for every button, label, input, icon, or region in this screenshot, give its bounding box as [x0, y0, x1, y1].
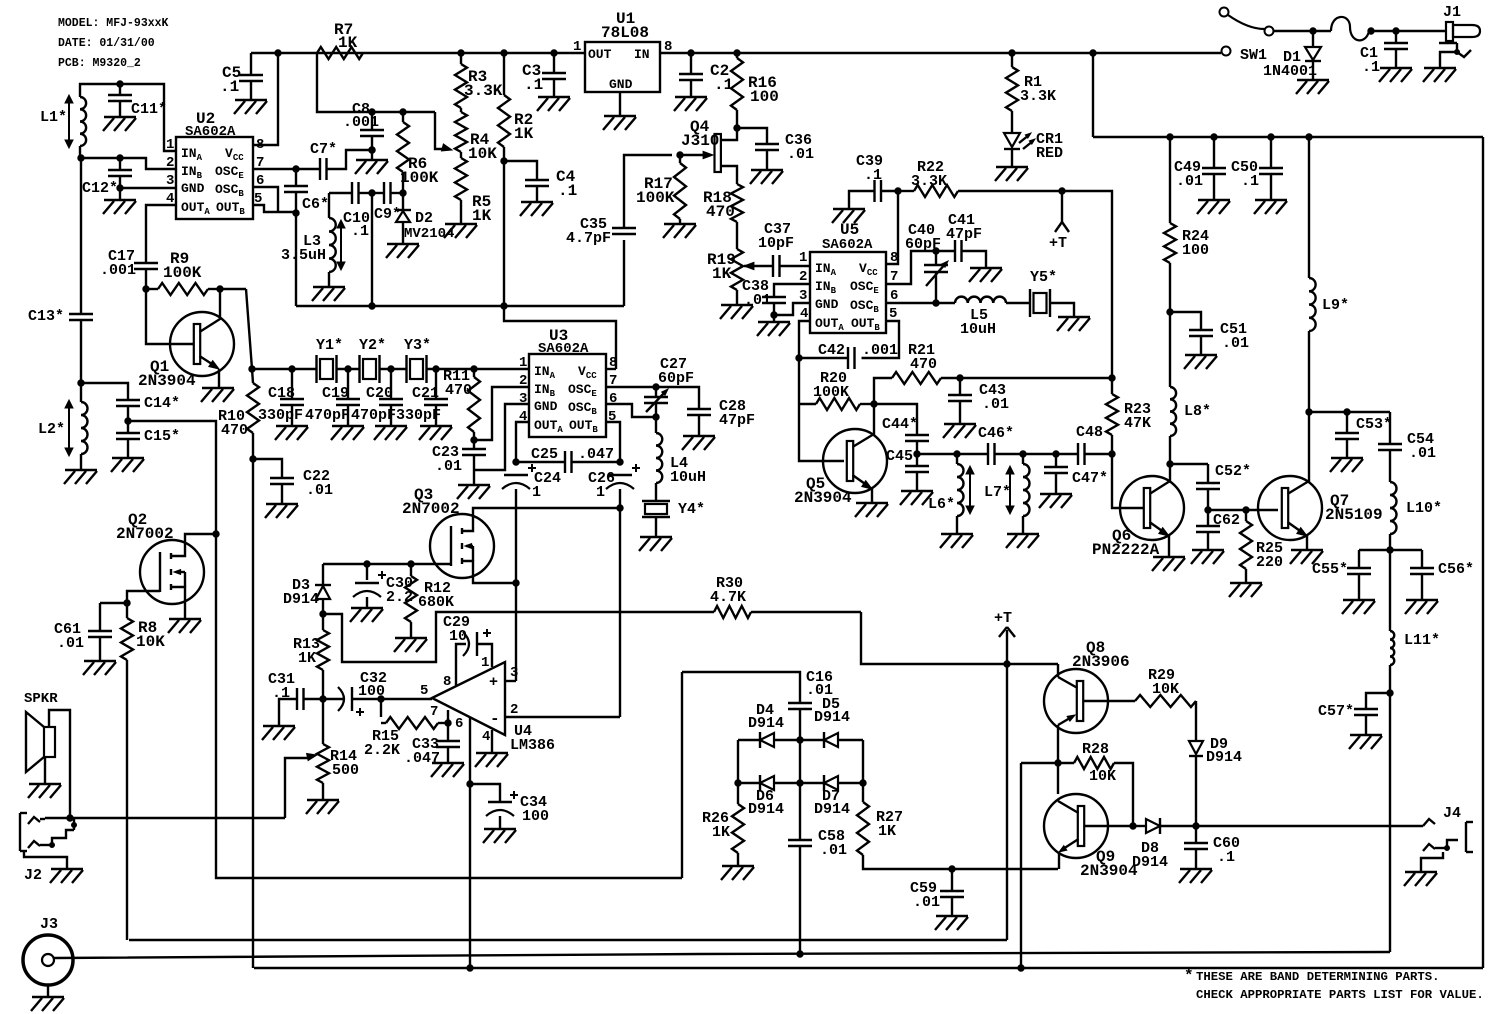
capacitor C39 — [873, 180, 875, 202]
crystal Y3 — [405, 355, 407, 383]
svg-text:GND: GND — [181, 181, 205, 196]
node D8-D9-C60 — [1193, 823, 1199, 829]
node D1 tap — [1310, 28, 1316, 34]
svg-text:LM386: LM386 — [510, 737, 555, 754]
ground C38 — [773, 315, 775, 322]
resistor R23 — [1106, 394, 1118, 435]
transistor Q8 2N3906 — [1044, 669, 1108, 733]
svg-text:.01: .01 — [820, 842, 847, 859]
ground C18 — [276, 425, 308, 427]
svg-text:C21: C21 — [412, 385, 439, 402]
node IF joints — [954, 451, 960, 457]
node filter joints — [289, 366, 295, 372]
svg-text:PN2222A: PN2222A — [1092, 541, 1160, 559]
capacitor C51 — [1170, 312, 1201, 330]
wire R14 wiper — [285, 758, 310, 818]
fuse F1 — [1331, 17, 1369, 40]
capacitor C6 — [295, 169, 297, 186]
capacitor C21 — [435, 369, 437, 399]
svg-text:2N3906: 2N3906 — [1072, 653, 1130, 671]
svg-text:+T: +T — [1049, 235, 1067, 252]
node C42 left — [796, 355, 802, 361]
svg-text:470pF: 470pF — [305, 407, 350, 424]
svg-text:2N3904: 2N3904 — [138, 372, 196, 390]
svg-text:C20: C20 — [366, 385, 393, 402]
svg-text:Y1*: Y1* — [316, 337, 343, 354]
svg-text:R28: R28 — [1082, 741, 1109, 758]
svg-text:D2: D2 — [415, 210, 433, 227]
svg-text:1: 1 — [519, 355, 527, 371]
resistor R3 — [460, 53, 462, 64]
capacitor C4 — [504, 161, 537, 180]
wire R30 net — [323, 612, 714, 662]
svg-text:C55*: C55* — [1312, 561, 1348, 578]
node LPF mid — [1387, 547, 1393, 553]
svg-text:SA602A: SA602A — [538, 341, 589, 357]
ground C36 — [751, 169, 783, 171]
svg-text:10K: 10K — [1152, 681, 1179, 698]
resistor R8 — [126, 603, 128, 618]
capacitor C44 — [905, 434, 929, 436]
svg-text:.1: .1 — [272, 685, 290, 702]
node C8 top — [369, 109, 375, 115]
ground C51 — [1185, 354, 1217, 356]
svg-text:1K: 1K — [514, 125, 534, 143]
wire supply drop — [1092, 53, 1094, 137]
node R25 tap — [1243, 507, 1249, 513]
IC U2 SA602A — [176, 137, 253, 219]
svg-text:+T: +T — [994, 610, 1012, 627]
wire U4 pin7 stub — [447, 710, 449, 723]
node R20 right — [871, 401, 877, 407]
wire U3 pin7 — [606, 386, 656, 388]
ground C53 — [1331, 457, 1363, 459]
node +T tap top — [1059, 188, 1065, 194]
wire +T rail — [861, 612, 1058, 664]
svg-text:C42: C42 — [818, 342, 845, 359]
resistor R7 — [317, 47, 363, 59]
node C40 bottom join — [933, 300, 939, 306]
ground C43 — [944, 423, 976, 425]
svg-text:CHECK APPROPRIATE PARTS LIST F: CHECK APPROPRIATE PARTS LIST FOR VALUE. — [1196, 988, 1484, 1002]
wire pin6 jog — [606, 404, 656, 417]
node L8 bottom — [1167, 461, 1173, 467]
capacitor C48 — [1077, 443, 1079, 465]
ground C45 — [901, 490, 933, 492]
varactor D2 MV2104 — [402, 193, 404, 210]
resistor R11 — [468, 377, 480, 432]
svg-text:C12*: C12* — [82, 180, 118, 197]
node L2 top — [78, 380, 84, 386]
svg-text:100K: 100K — [813, 384, 849, 401]
resistor R10 — [252, 369, 253, 383]
wire antenna branch — [80, 158, 82, 314]
node C43 tap — [957, 375, 963, 381]
arrow L7 variable — [1009, 470, 1011, 510]
svg-text:THESE ARE BAND DETERMINING PAR: THESE ARE BAND DETERMINING PARTS. — [1196, 970, 1440, 984]
svg-text:10uH: 10uH — [670, 469, 706, 486]
node Q2 drain tap — [213, 531, 219, 537]
svg-text:.01: .01 — [306, 482, 333, 499]
wire osc column — [295, 213, 297, 306]
wire U4 pin6 line — [469, 717, 471, 968]
capacitor C58 — [799, 783, 801, 840]
node Q2 gate — [124, 600, 130, 606]
wire SW1 to D1 — [1274, 30, 1332, 32]
wire R8 to bus — [126, 660, 128, 940]
resistor R2 — [503, 53, 505, 95]
wire R7 to C8/R6 — [317, 53, 435, 112]
svg-text:C44*: C44* — [882, 416, 918, 433]
wire Y5 ground — [1050, 303, 1074, 317]
capacitor C11 — [119, 84, 121, 95]
svg-text:.1: .1 — [1217, 849, 1235, 866]
node C1 tap — [1368, 28, 1374, 34]
wire Q7 base line — [1208, 509, 1278, 511]
svg-text:SA602A: SA602A — [185, 124, 236, 140]
crystal Y5 — [1029, 289, 1031, 317]
regulator U1 78L08 — [585, 42, 660, 92]
ground CR1 — [996, 166, 1028, 168]
capacitor C60 — [1195, 826, 1197, 843]
wire limiter top — [682, 672, 800, 703]
svg-text:C48: C48 — [1076, 424, 1103, 441]
svg-text:3.3K: 3.3K — [1020, 88, 1056, 105]
capacitor C45 — [916, 454, 918, 466]
svg-text:.01: .01 — [1176, 173, 1203, 190]
svg-text:10uH: 10uH — [960, 321, 996, 338]
capacitor C55 — [1358, 550, 1360, 568]
wire U3 pin2 jog — [474, 387, 529, 440]
svg-text:.1: .1 — [524, 76, 543, 94]
ground Y5 — [1058, 316, 1090, 318]
svg-text:10: 10 — [449, 628, 467, 645]
svg-text:.01: .01 — [787, 146, 814, 163]
svg-text:2.2: 2.2 — [386, 589, 413, 606]
capacitor C54 — [1389, 412, 1391, 444]
svg-text:D914: D914 — [814, 709, 850, 726]
connector J1 sleeve — [1439, 42, 1457, 44]
svg-text:100K: 100K — [400, 169, 439, 187]
svg-text:3: 3 — [519, 391, 527, 407]
capacitor C37 — [772, 255, 774, 277]
ground C59 — [936, 915, 968, 917]
wire U5 pin4 col — [799, 321, 844, 461]
svg-text:L6*: L6* — [928, 496, 955, 513]
ground C12 — [119, 188, 121, 200]
svg-text:10K: 10K — [136, 633, 165, 651]
svg-text:1K: 1K — [338, 34, 358, 52]
wire fuse to J1 — [1369, 30, 1446, 32]
svg-text:100: 100 — [750, 88, 779, 106]
node Q3 drain join — [617, 505, 623, 511]
capacitor C5 — [250, 53, 252, 75]
svg-text:.1: .1 — [864, 167, 882, 184]
resistor R1 — [1011, 53, 1013, 67]
svg-text:6: 6 — [256, 173, 264, 189]
capacitor C62 — [1207, 510, 1209, 526]
capacitor C46 — [987, 443, 989, 465]
ground C34 — [484, 828, 516, 830]
wire C14 feed — [81, 383, 128, 400]
svg-text:680K: 680K — [418, 594, 454, 611]
wire Q1 base — [146, 289, 193, 344]
wire R28 left drop — [1020, 763, 1022, 968]
capacitor C23 — [473, 440, 475, 449]
ground C5 — [235, 99, 267, 101]
node C11 tap — [117, 81, 123, 87]
svg-text:C13*: C13* — [28, 308, 64, 325]
svg-text:-: - — [490, 710, 500, 728]
crystal Y4 — [642, 500, 670, 502]
svg-text:1: 1 — [596, 484, 605, 501]
wire R21 left — [874, 378, 892, 404]
wire U4 pin3 — [505, 680, 516, 682]
svg-text:SPKR: SPKR — [24, 691, 58, 707]
resistor R24 — [1169, 137, 1171, 223]
wire x682 vertical — [681, 672, 683, 878]
wire U5 pin2 — [774, 284, 810, 297]
capacitor C33 — [447, 723, 449, 741]
arrow L3 variable — [340, 224, 342, 266]
capacitor C20 — [390, 369, 392, 399]
capacitor C10 — [329, 192, 352, 194]
svg-text:47K: 47K — [1124, 415, 1151, 432]
svg-text:L10*: L10* — [1406, 500, 1442, 517]
node C53 tap — [1344, 409, 1350, 415]
node Q7 collector — [1306, 409, 1312, 415]
svg-text:.1: .1 — [220, 78, 239, 96]
svg-text:D914: D914 — [1132, 854, 1168, 871]
wire C61 link — [100, 602, 127, 604]
svg-text:GND: GND — [609, 77, 633, 92]
svg-text:2: 2 — [510, 702, 518, 718]
wire mid bus — [129, 939, 1007, 941]
node C7-C6 — [293, 166, 299, 172]
crystal Y1 — [315, 355, 317, 383]
node C48 right — [1109, 451, 1115, 457]
svg-text:.047: .047 — [404, 750, 440, 767]
node C59 tap — [949, 866, 955, 872]
LED CR1 RED — [1004, 133, 1020, 147]
wire C44 feed — [874, 404, 917, 435]
svg-text:3: 3 — [166, 173, 174, 189]
ground C20 — [375, 425, 407, 427]
ground L6 — [941, 533, 973, 535]
node C27 bottom — [653, 414, 659, 420]
wire C52 feed — [1170, 463, 1208, 465]
svg-text:.1: .1 — [351, 223, 369, 240]
inductor L9 — [1308, 137, 1310, 278]
svg-text:L9*: L9* — [1322, 297, 1349, 314]
ground J1 — [1424, 67, 1456, 69]
svg-text:+: + — [489, 674, 498, 691]
ground C60 — [1180, 868, 1212, 870]
ground C39 — [833, 208, 865, 210]
capacitor C1 — [1395, 31, 1397, 43]
ground R26 — [722, 865, 754, 867]
resistor R5 — [460, 152, 462, 158]
node C8 bottom — [369, 147, 375, 153]
wire filter segs — [252, 368, 316, 370]
svg-text:470: 470 — [706, 203, 735, 221]
ground C11 — [104, 116, 136, 118]
ground R25 — [1230, 582, 1262, 584]
node C51 tap — [1167, 309, 1173, 315]
wire 6V line — [296, 305, 624, 307]
ground U1 GND pin — [619, 92, 621, 116]
IC U3 SA602A — [529, 354, 606, 437]
svg-text:MV2104: MV2104 — [404, 226, 454, 242]
ground C56 — [1406, 599, 1438, 601]
svg-text:J4: J4 — [1443, 805, 1461, 822]
svg-text:.01: .01 — [982, 396, 1009, 413]
svg-text:D914: D914 — [1206, 749, 1242, 766]
symbol +T flag — [1061, 191, 1063, 222]
ground R5 — [445, 223, 477, 225]
svg-text:4: 4 — [800, 306, 808, 322]
wire long left bus — [252, 459, 254, 968]
svg-text:C62: C62 — [1213, 512, 1240, 529]
wire AGC line — [128, 421, 682, 878]
svg-text:470: 470 — [910, 356, 937, 373]
resistor R6 — [402, 112, 404, 122]
ground R12 — [395, 637, 427, 639]
wire box bottom — [254, 967, 1483, 969]
svg-text:2N7002: 2N7002 — [402, 500, 460, 518]
ground C61 — [84, 660, 116, 662]
svg-text:C7*: C7* — [310, 141, 337, 158]
wire IF line — [917, 453, 988, 455]
ground C33 — [432, 762, 464, 764]
capacitor C35 — [623, 240, 625, 306]
wire U4 pin2 feedback — [505, 716, 620, 718]
svg-text:Y2*: Y2* — [359, 337, 386, 354]
inductor L7 — [1022, 454, 1024, 464]
svg-text:4.7K: 4.7K — [710, 589, 746, 606]
ground SPKR — [29, 783, 61, 785]
node C24 mid — [513, 580, 519, 586]
capacitor C26 — [608, 474, 632, 476]
IC U5 SA602A — [810, 252, 886, 333]
resistor R20 — [799, 403, 816, 405]
svg-text:C18: C18 — [268, 385, 295, 402]
node pin6-C34 — [467, 781, 473, 787]
svg-text:8: 8 — [609, 355, 617, 371]
node R17 top — [677, 152, 683, 158]
wire pin4 jog — [516, 422, 529, 462]
svg-text:1K: 1K — [712, 265, 732, 283]
inductor L8 — [1170, 387, 1176, 436]
capacitor C7 — [296, 168, 320, 170]
svg-text:Y3*: Y3* — [404, 337, 431, 354]
wire U3 pin3 jog — [474, 404, 529, 470]
transistor Q9 2N3904 — [1044, 794, 1108, 858]
svg-text:.1: .1 — [714, 76, 733, 94]
node C32 out — [378, 696, 384, 702]
diode D6 D914 — [760, 776, 774, 790]
svg-text:220: 220 — [1256, 554, 1283, 571]
capacitor C19 — [347, 369, 349, 399]
capacitor C59 — [951, 869, 953, 891]
wire pin5 jog — [606, 422, 620, 462]
svg-text:1K: 1K — [712, 824, 730, 841]
svg-text:.001: .001 — [862, 342, 898, 359]
arrow L1 variable — [68, 99, 70, 144]
resistor R14 — [322, 699, 324, 744]
ground C49 — [1198, 199, 1230, 201]
svg-text:7: 7 — [256, 155, 264, 171]
svg-text:.1: .1 — [1362, 59, 1380, 76]
wire J2 tip line — [45, 817, 285, 819]
capacitor C34 — [470, 784, 500, 802]
node R6 bottom — [400, 190, 406, 196]
svg-text:D914: D914 — [283, 591, 319, 608]
wire R22 to R23 — [1062, 191, 1112, 394]
capacitor C31 — [279, 699, 297, 726]
svg-text:RED: RED — [1036, 145, 1063, 162]
svg-text:10pF: 10pF — [758, 235, 794, 252]
svg-text:2.2K: 2.2K — [364, 742, 400, 759]
node C8-C7 gnd — [369, 147, 375, 153]
svg-text:L8*: L8* — [1184, 403, 1211, 420]
capacitor C40 variable — [935, 251, 937, 265]
svg-text:47pF: 47pF — [719, 412, 755, 429]
diode D9 D914 — [1189, 741, 1203, 754]
node C16 bottom — [797, 737, 803, 743]
node C52-C62 — [1205, 507, 1211, 513]
node R11 bottom — [471, 437, 477, 443]
svg-text:.01: .01 — [744, 292, 771, 309]
node 6V junctions — [369, 303, 375, 309]
node Q8-Q9 R28 tap — [1055, 760, 1061, 766]
diode D7 D914 — [824, 776, 838, 790]
inductor L3 — [328, 193, 330, 218]
ground R19 — [721, 304, 753, 306]
svg-text:100K: 100K — [636, 189, 675, 207]
svg-text:100: 100 — [1182, 242, 1209, 259]
svg-text:1: 1 — [799, 250, 807, 266]
inductor L1 — [80, 97, 86, 146]
resistor R17 — [679, 155, 681, 163]
wire U5 pin6 — [886, 302, 955, 304]
ground L7 — [1007, 533, 1039, 535]
svg-text:60pF: 60pF — [905, 236, 941, 253]
wire C40 bottom — [935, 272, 937, 303]
capacitor C2 — [690, 53, 692, 74]
svg-text:1K: 1K — [298, 650, 316, 667]
svg-text:C25: C25 — [531, 446, 558, 463]
svg-text:C15*: C15* — [144, 428, 180, 445]
ground C28 — [683, 435, 715, 437]
svg-text:MODEL: MFJ-93xxK: MODEL: MFJ-93xxK — [58, 17, 169, 30]
node bottom joints — [467, 965, 473, 971]
node L1 bottom — [78, 155, 84, 161]
svg-text:470: 470 — [445, 382, 472, 399]
connector J3 BNC — [23, 935, 73, 985]
node rail junctions — [275, 50, 281, 56]
diode D3 D914 — [322, 564, 324, 585]
wire antenna bus — [54, 952, 1390, 958]
capacitor C61 — [99, 603, 101, 631]
ground C2 — [675, 96, 707, 98]
svg-text:GND: GND — [534, 399, 558, 414]
capacitor C18 — [291, 369, 293, 399]
ground C30 — [351, 607, 383, 609]
wire Q6 base — [1112, 476, 1144, 508]
svg-text:J3: J3 — [40, 916, 58, 933]
arrow L6 variable — [969, 470, 971, 510]
